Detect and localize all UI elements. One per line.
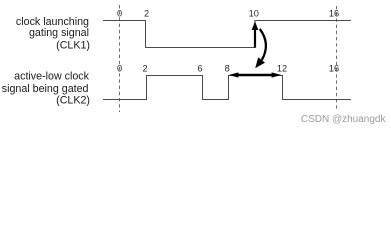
svg-text:0: 0 bbox=[117, 8, 122, 18]
svg-text:signal being gated: signal being gated bbox=[2, 83, 89, 95]
svg-text:8: 8 bbox=[225, 63, 230, 73]
svg-text:2: 2 bbox=[142, 63, 147, 73]
svg-text:(CLK1): (CLK1) bbox=[56, 40, 90, 52]
svg-text:6: 6 bbox=[197, 63, 202, 73]
svg-text:2: 2 bbox=[144, 8, 149, 18]
svg-text:16: 16 bbox=[329, 63, 339, 73]
svg-text:12: 12 bbox=[277, 63, 287, 73]
svg-text:active-low clock: active-low clock bbox=[14, 70, 89, 82]
svg-text:10: 10 bbox=[249, 8, 259, 18]
svg-text:CSDN @zhuangdk: CSDN @zhuangdk bbox=[301, 114, 387, 125]
svg-text:(CLK2): (CLK2) bbox=[56, 95, 90, 107]
svg-text:0: 0 bbox=[117, 63, 122, 73]
svg-text:gating signal: gating signal bbox=[29, 27, 89, 39]
svg-text:16: 16 bbox=[329, 8, 339, 18]
